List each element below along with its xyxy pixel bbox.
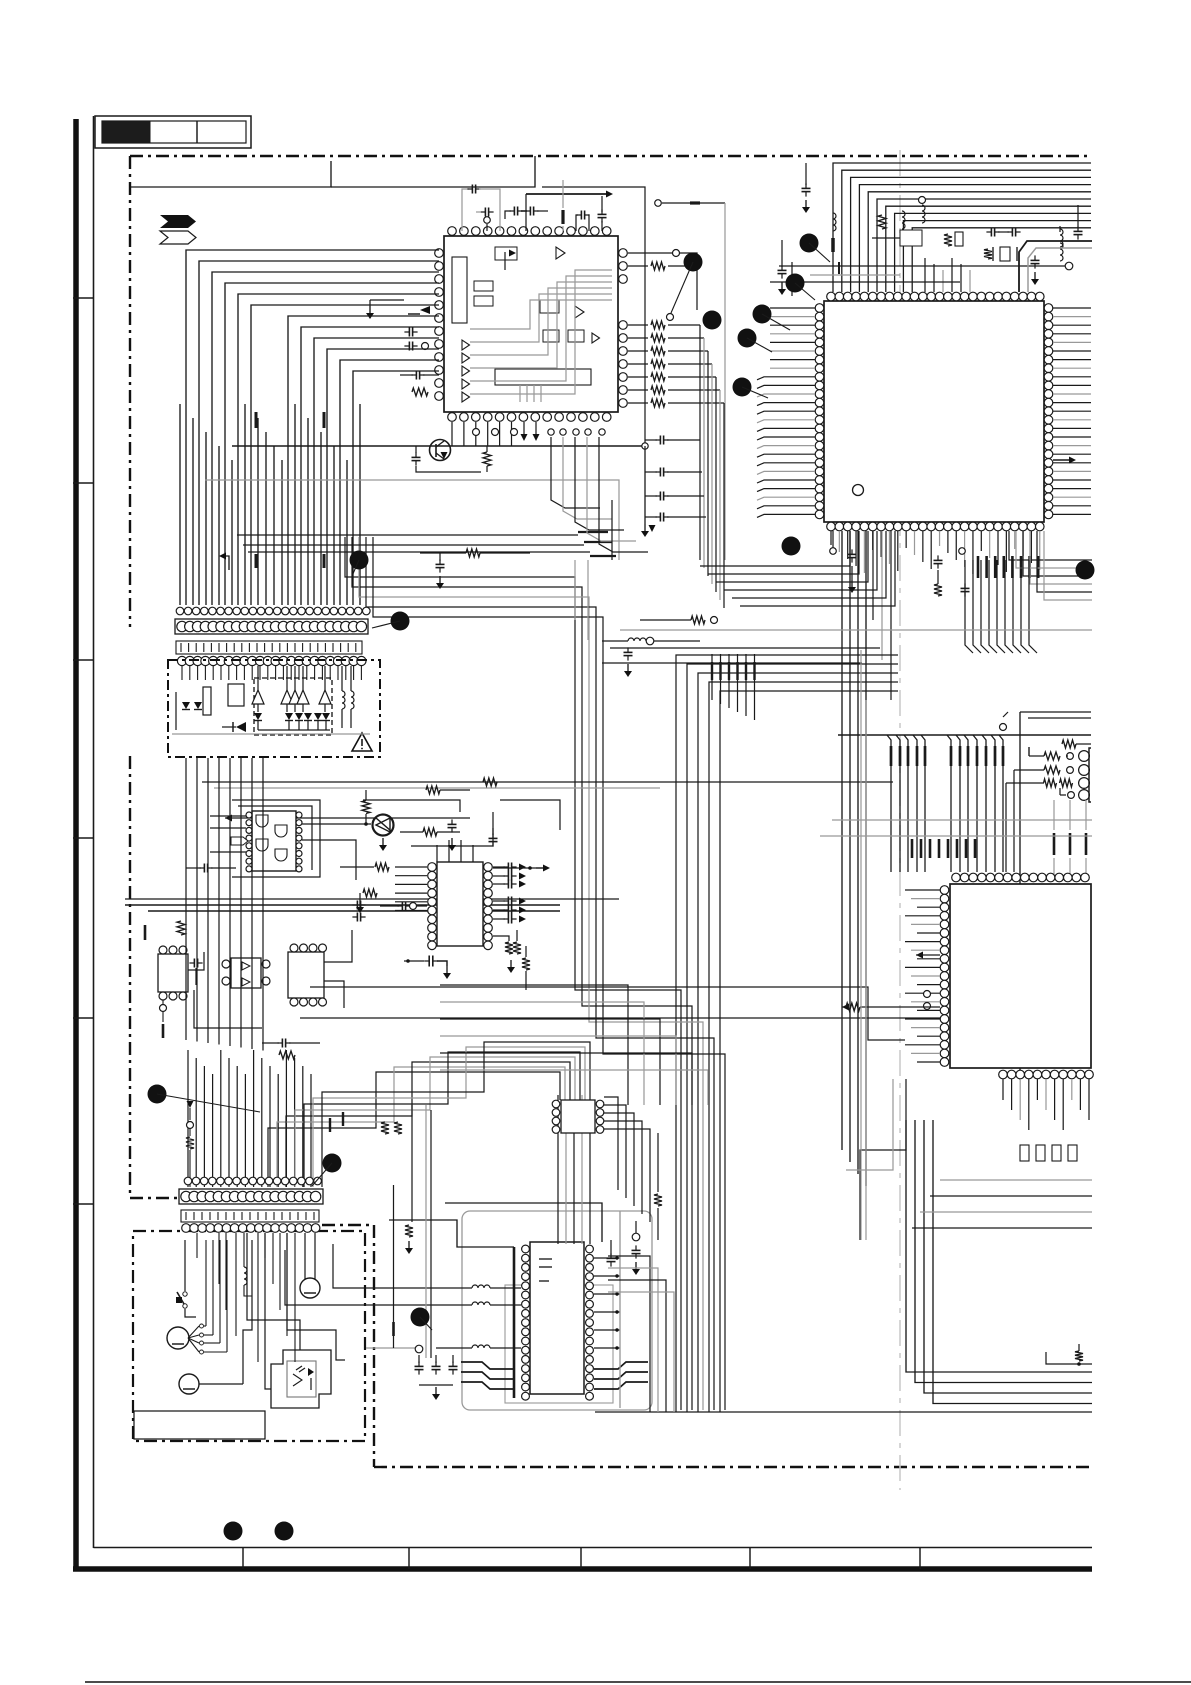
rail y275 above U2: [810, 274, 900, 276]
IC U9 top pin row: [952, 873, 961, 882]
wire rail y1018: [300, 1017, 940, 1019]
wire Q1 emitter-base rail: [232, 445, 645, 447]
bus verticals into CN2: [187, 1050, 189, 1187]
IC U7 inner gray box: [505, 1285, 613, 1403]
IC U3 nested loops: [232, 800, 320, 877]
IC U2 bottom pin row: [827, 522, 836, 531]
junction dot motor line: [364, 822, 368, 826]
wires cluster U5-U6: [188, 952, 204, 970]
circle node cluster Q: [632, 1233, 640, 1241]
IC U5 stub: [160, 1005, 167, 1012]
bus staircase under U2 bottom: [700, 531, 850, 566]
resistor R25 cluster P: [405, 1225, 413, 1237]
protection resistor R5 vertical: [203, 687, 211, 715]
connector CN1 housing circles: [177, 621, 187, 631]
thick hash marks above U9: [911, 839, 914, 858]
callout dot (791,546): [782, 537, 801, 556]
gray L-bends below U2 right: [1009, 531, 1092, 560]
IC U6 top/bottom pins: [290, 944, 298, 952]
bead dark above U2: [831, 238, 835, 252]
rail y266 above U2: [779, 265, 1065, 267]
IC U3 right pins: [296, 812, 302, 818]
panel lamp LP1: [300, 1278, 320, 1298]
IC U4 body: [437, 862, 483, 946]
protection diode row stems: [257, 721, 259, 730]
callout dot (693,262): [684, 253, 703, 272]
resistor R10 above U2: [878, 215, 886, 229]
arrow into U2 region: [1019, 241, 1092, 292]
region boundary dash-dot bottom horizontal: [374, 1466, 1092, 1468]
page bottom edge line: [85, 1681, 1191, 1683]
capacitor C22 under U5: [193, 959, 195, 968]
callout dot (747,338): [738, 329, 757, 348]
gray rails into U9 area: [832, 819, 1092, 821]
region boundary dash-dot lower-left box: [133, 1231, 365, 1441]
cap C30 on rail: [436, 563, 445, 565]
crystal X1 above U2: [1000, 247, 1010, 261]
IC U7 right hooks: [594, 1362, 648, 1369]
IC U1 bottom pin row: [448, 413, 457, 422]
U4 right resistor pair: [505, 942, 513, 954]
callout dot (809,243): [800, 234, 819, 253]
U4 bottom resistor: [522, 958, 530, 970]
wire rail y545: [243, 544, 584, 546]
IC U9 body: [950, 884, 1091, 1068]
callout dot (1085,570): [1076, 561, 1095, 580]
vertical feed lines cluster P: [411, 1105, 413, 1222]
registration dot left: [224, 1522, 243, 1541]
wire U4 top rail: [411, 828, 493, 846]
gnd x645: [644, 524, 646, 531]
region boundary dash-dot vertical right of lower connector: [373, 1225, 375, 1467]
resistor R3 at Q1: [483, 452, 491, 466]
title block black cell: [102, 121, 150, 143]
panel lamp LP2: [179, 1374, 199, 1394]
mid horizontal rails right: [620, 629, 1092, 631]
ladder top resistor: [1062, 740, 1076, 748]
panel wire to opto: [247, 1233, 300, 1350]
IC U4 left pins: [428, 863, 437, 872]
capacitor on riser x602: [601, 196, 603, 212]
inductors L5-L7 at U7 left: [472, 1285, 490, 1288]
staircase bottom-left to IC7: [268, 1072, 560, 1187]
border frame inner bottom line: [94, 1547, 1093, 1549]
callout leader lines: [671, 262, 693, 313]
resistor R30 on rail: [466, 549, 480, 557]
capacitor C24 at U4: [401, 902, 403, 911]
connector CN2 housing bar: [179, 1189, 323, 1204]
bus staircase F from CN1 area: [345, 537, 681, 1410]
capacitor C27 cluster Q: [632, 1249, 641, 1251]
capacitor C15 below U2 left: [848, 553, 857, 555]
dashed-region edge wire: [611, 500, 613, 560]
bead row 2: [711, 654, 713, 700]
capacitor C11 above U2: [990, 228, 992, 237]
bead marks on CN1 risers: [255, 412, 258, 428]
warning triangle: [352, 733, 372, 751]
capacitor C12 above U2: [1031, 259, 1040, 261]
IC U2 right pin column: [1044, 304, 1053, 313]
IC U7 internal bars: [539, 1258, 552, 1260]
callout dot (762,314): [753, 305, 772, 324]
IC U5 top/bottom pins: [159, 946, 167, 954]
capacitor C4 left of U1: [408, 328, 410, 337]
series capacitors above U1: [513, 207, 515, 216]
IC U1 internal block input mux: [452, 257, 467, 323]
transistor Q1: [430, 440, 451, 461]
wire rail y1412 to sheet edge: [595, 1411, 1092, 1413]
resistor above motor: [362, 801, 370, 814]
small circle node left of U1: [422, 343, 429, 350]
IC U6 body: [288, 952, 324, 998]
capacitor C28 cluster Q: [607, 1257, 616, 1259]
bus U1 left pins to CN1: [186, 250, 439, 605]
inductor node center: [628, 638, 646, 641]
wire hook bundle right of center: [965, 560, 973, 653]
bus into U9 top with beads: [887, 735, 891, 872]
IC U9 left pin column: [940, 886, 949, 895]
bus CN1 to lower-left area: [185, 758, 187, 1040]
gray verticals x861 down: [860, 650, 862, 1240]
arrow net above U1: [525, 194, 527, 231]
circle node cluster P: [415, 1345, 423, 1353]
resistor R13 at U4: [375, 863, 389, 871]
IC U2 top pin row: [827, 292, 836, 301]
title block inner box: [102, 121, 246, 143]
IC U2 left pin column: [815, 304, 824, 313]
optocoupler PC1 pins: [222, 960, 230, 968]
callout dot (400,621): [391, 612, 410, 631]
capacitor C13 above U2 right: [1074, 230, 1083, 232]
diode D1 left of U1: [420, 306, 430, 314]
bus U1 right upper pins: [628, 252, 672, 254]
capacitor C23 bottom: [281, 1039, 283, 1048]
gray vertical right of U7: [619, 1211, 621, 1408]
capacitor trio cluster P: [415, 1365, 424, 1367]
IC U8 pins: [552, 1100, 560, 1108]
IC U1 top pin row: [448, 227, 457, 236]
IC U2 right pin stubs to sheet edge: [1053, 307, 1091, 309]
IC U7 left hooks: [461, 1362, 514, 1369]
callout dot (712,320): [703, 311, 722, 330]
wire rail y535: [237, 534, 578, 536]
IC U7 outer gray loop: [462, 1211, 652, 1410]
capacitor C1 above U1 gray loop: [462, 189, 469, 231]
IC U1 left pin column: [435, 249, 444, 258]
IC U1 right pin column: [619, 321, 628, 330]
IC U7 top rail: [445, 1203, 602, 1242]
circle stub above U9: [1000, 724, 1007, 731]
page crease dash-dot vertical: [899, 150, 901, 1490]
bus above U2 fan to sheet edge: [833, 163, 1091, 292]
panel opto PC2 inner: [287, 1361, 316, 1397]
wire rail y987 hook: [310, 987, 905, 1040]
IC U2 body: [824, 301, 1044, 522]
IC U2 pin1 index circle: [853, 485, 864, 496]
panel opto PC2 outer: [271, 1350, 331, 1408]
protection inner dashed box: [254, 678, 332, 735]
border frame inner left line: [93, 116, 95, 1548]
U3 top-right rails: [363, 800, 460, 812]
arrow at U9 left: [916, 952, 923, 959]
wires around U3: [210, 815, 246, 817]
bead below U5: [162, 1024, 165, 1038]
region boundary dash-dot left vertical mid: [129, 756, 131, 1198]
flag stub left of U3: [231, 837, 248, 845]
IC U1 body: [444, 236, 618, 412]
feed risers to U7 inductors: [333, 1244, 436, 1288]
panel sensor Q10: [167, 1327, 189, 1349]
flag symbol filled: [160, 215, 196, 228]
IC U3 gate shapes: [256, 815, 268, 827]
wire rail gray y480: [205, 480, 619, 560]
bead on riser x563: [561, 210, 564, 224]
flag symbol open: [160, 231, 196, 244]
hook terminations from U1 bottom: [551, 437, 600, 508]
protection box bottom rail: [172, 733, 370, 735]
IC U8 body small: [561, 1100, 595, 1133]
connector CN2 upper circle row: [184, 1177, 192, 1185]
IC U1 bottom arrows: [523, 422, 525, 436]
region boundary dash-dot top horizontal: [130, 155, 1091, 157]
U4 right capacitor-arrow pairs: [493, 866, 505, 868]
panel switch SW1: [183, 1292, 187, 1296]
loop capacitor x582: [576, 215, 578, 231]
bus staircase center-right descend: [676, 655, 898, 1412]
IC U7 left bus bar: [513, 1247, 516, 1398]
wire loop to x645: [542, 187, 645, 443]
IC U4 left wires: [395, 866, 427, 868]
protection diodes D2 D3: [182, 702, 190, 709]
capacitor C25 below U4: [406, 959, 410, 963]
rail y735 into U9: [838, 734, 1091, 736]
border frame thick left: [73, 119, 79, 1571]
registration dot right: [275, 1522, 294, 1541]
connector CN1 lower circle row: [177, 656, 186, 665]
IC U7 left pins: [522, 1245, 530, 1253]
wire right pins drop to staircase: [699, 325, 701, 560]
callout dot (332,1163): [323, 1154, 342, 1173]
IC U8 right pin wires cluster Q: [604, 1097, 618, 1190]
resistor R2 left of U1: [412, 388, 428, 396]
connector CN2 pin-number strip: [181, 1210, 319, 1222]
capacitor C5 left of U1: [415, 371, 417, 380]
IC U1 bottom sub-circles: [473, 429, 480, 436]
gnd at U4: [359, 893, 361, 900]
connector CN1 upper circle row: [176, 607, 184, 615]
panel box lower-left plain rect: [134, 1411, 265, 1439]
arrow stub left: [222, 556, 229, 570]
wire long horizontal y788: [214, 787, 660, 789]
IC U3 quad-gate body: [252, 811, 296, 871]
capacitor ladder x662: [659, 436, 661, 445]
long verticals U2 down: [841, 531, 843, 1150]
panel opto PC2 diodes: [293, 1374, 302, 1386]
capacitor C20 left: [203, 864, 205, 873]
protection block R6: [228, 684, 244, 706]
protection inductors right: [342, 691, 345, 709]
capacitor C31 gray drop: [574, 560, 576, 620]
bead on line x394: [393, 1185, 395, 1348]
resistor R26 cluster Q: [654, 1194, 662, 1206]
ladder bracket: [1089, 748, 1091, 802]
IC U7 right pins: [586, 1245, 594, 1253]
thick hash marks below U2: [977, 556, 980, 578]
bus CN1 verticals extra: [179, 404, 181, 605]
resistor-circle ladder upper right: [1028, 747, 1030, 756]
inductor L3 above U2: [1060, 229, 1063, 247]
connector CN1 lower stubs: [181, 666, 183, 680]
resistor network right of crease: [691, 616, 705, 624]
IC U9 bottom pin row: [999, 1070, 1008, 1079]
IC U3 left pins: [246, 812, 252, 818]
ground left of U1: [369, 306, 371, 313]
connector CN1 pin-number strip: [176, 641, 362, 654]
connector CN2 lower circle row: [182, 1224, 191, 1233]
protection box dash-dot outline: [168, 660, 380, 757]
net above U2 horizontal: [770, 281, 960, 283]
IC U7 right pin wires: [594, 1257, 620, 1259]
connector CN2 housing circles: [181, 1191, 191, 1201]
bus below U9: [1002, 1079, 1004, 1100]
IC U1 bottom small circles 2: [548, 429, 554, 435]
IC U7 body: [530, 1242, 584, 1394]
optocoupler PC1 diodes: [242, 962, 250, 970]
protection buffer triangles: [252, 690, 264, 704]
wire rail y552: [248, 551, 590, 553]
resistor R20 on riser: [187, 1122, 194, 1129]
wire bus y899-y911: [125, 898, 619, 900]
wire y203 with bead to gray riser: [655, 200, 662, 207]
border frame thick bottom: [73, 1566, 1092, 1572]
wires right of U7: [608, 1256, 650, 1412]
wire arrow y818: [225, 815, 232, 822]
vertical bus x870 down: [872, 531, 874, 620]
IC U1 internal blocks: [474, 281, 493, 291]
vertical bus to U7: [557, 1095, 559, 1244]
IC U5 body: [158, 954, 188, 992]
callout dot (742,387): [733, 378, 752, 397]
components below U2: [934, 559, 943, 561]
IC U2 right arrow: [1053, 459, 1070, 461]
IC U1 bottom pin stubs: [451, 422, 453, 446]
region boundary dash-dot stub to lower connector: [130, 1197, 179, 1199]
panel sensor arrows: [188, 1326, 199, 1338]
wire long horizontal y782: [202, 781, 893, 783]
IC U4 right pins: [484, 863, 493, 872]
capacitor C14 left above U2: [778, 269, 787, 271]
IC U9 left pin stubs: [905, 889, 940, 891]
wires left of U9 bottom: [860, 1079, 906, 1240]
capacitor C21 mid: [356, 901, 358, 910]
left fold tick marks: [73, 297, 94, 299]
panel wire inductor: [244, 1267, 247, 1285]
ladder feed risers: [1013, 770, 1015, 872]
protection diode row: [254, 713, 262, 720]
title block outer box: [95, 116, 251, 148]
callout dot (157,1094): [148, 1085, 167, 1104]
callout dot (795,283): [786, 274, 805, 293]
title block divider: [196, 121, 198, 143]
inductor L1 above U2: [833, 213, 836, 231]
region boundary dash-dot left vertical upper: [129, 156, 131, 627]
capacitor C10 above U2: [802, 187, 811, 189]
bus nested corners lower-middle: [440, 985, 628, 1105]
bus U2 bottom pins down: [830, 531, 832, 545]
small bead: [144, 925, 147, 940]
IC U1 internal buffer column: [462, 340, 470, 350]
vertical feed x645: [644, 449, 646, 524]
IC U1 internal display register block: [495, 369, 591, 385]
resistor pair top CN2: [381, 1122, 389, 1134]
inductor L2 above U2: [922, 205, 925, 223]
connector CN1 housing bar: [175, 619, 368, 634]
capacitor C6 at Q1: [412, 456, 421, 458]
bus above U2 extra risers: [924, 258, 926, 292]
callout dot (420,1317): [411, 1308, 430, 1327]
capacitor C2 above U1: [484, 208, 486, 217]
wire top-left horizontal feed: [131, 161, 331, 187]
loop fragment above corner bus: [1046, 1352, 1092, 1364]
resistor R12: [177, 921, 185, 935]
corner bus bottom-right: [906, 1120, 1092, 1372]
IC U1 inner routing: [470, 300, 612, 329]
panel wires verticals: [196, 1233, 198, 1258]
U4 top-right arrow: [493, 867, 536, 869]
component cluster above U2: [900, 230, 922, 246]
thick hash marks right group: [1053, 833, 1056, 855]
IC U1 internal amp triangles: [556, 247, 565, 259]
U4 top wires: [436, 845, 438, 862]
bottom scale tick marks: [242, 1548, 244, 1570]
bus U1 right pins with series resistors: [628, 324, 648, 326]
callout dot (359,560): [350, 551, 369, 570]
optocoupler PC1 body: [231, 958, 261, 988]
small circles left of U9: [924, 991, 931, 998]
protection inner dashed box rail: [258, 729, 330, 731]
IC U2 left pin stubs: [770, 307, 815, 309]
bead pair on riser: [329, 1118, 331, 1132]
components below U9: [1020, 1145, 1029, 1161]
mid cap pair: [489, 837, 498, 839]
gray rails below U9: [940, 1179, 1092, 1181]
rails y710 y718 right: [1020, 711, 1091, 713]
gray horizontal into U7 area: [366, 1347, 415, 1349]
resistor arrow left of U9: [842, 1004, 849, 1011]
IC U1 internal mux arrow: [504, 252, 506, 270]
motor/detector symbol B1: [373, 815, 394, 836]
protection diode D4: [236, 722, 246, 732]
